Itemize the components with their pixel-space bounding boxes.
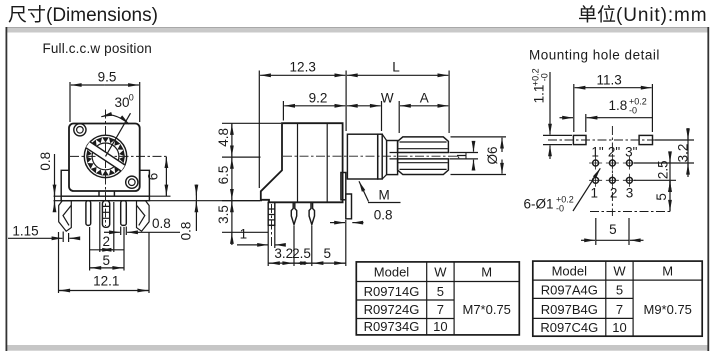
svg-text:3.2: 3.2 (274, 246, 293, 261)
svg-text:5: 5 (102, 253, 110, 268)
dim 0.8 right-vertical (195, 185, 197, 232)
svg-text:0.8: 0.8 (38, 152, 53, 171)
svg-text:2": 2" (608, 145, 621, 160)
dial teeth ring (86, 137, 125, 175)
dim 2.5 (634, 179, 676, 181)
front right pin (121, 201, 127, 226)
frame left line (6, 27, 8, 351)
frame bottom gray bar (6, 345, 710, 351)
shaft slot lines (390, 153, 398, 159)
front left hook leg (59, 201, 72, 231)
front left side tab (61, 170, 69, 196)
svg-text:A: A (420, 90, 429, 105)
svg-text:0.8: 0.8 (179, 222, 194, 241)
shaft knurl top half (398, 137, 449, 153)
mounting horizontal centerline (548, 139, 663, 141)
svg-text:R097B4G: R097B4G (541, 302, 598, 317)
dim 5 vertical (669, 181, 671, 189)
svg-text:1": 1" (591, 145, 604, 160)
dim A (398, 101, 400, 133)
svg-text:10: 10 (433, 319, 447, 334)
svg-text:2.5: 2.5 (292, 246, 311, 261)
svg-text:1: 1 (240, 227, 248, 242)
svg-text:0: 0 (129, 93, 134, 103)
shaft knurl bottom half (398, 159, 449, 175)
svg-text:Full.c.c.w position: Full.c.c.w position (43, 41, 152, 56)
svg-text:R09724G: R09724G (364, 302, 420, 317)
svg-text:3.2: 3.2 (675, 144, 690, 163)
dim 1 (shaft slot) (450, 152, 479, 154)
dim 1.1 +0.2/-0 (543, 134, 572, 136)
side bracket plate (341, 173, 346, 200)
svg-text:Ø6: Ø6 (485, 146, 500, 164)
side pin 2 (kite) (309, 202, 314, 224)
svg-text:9.2: 9.2 (309, 90, 328, 105)
svg-text:30: 30 (115, 95, 130, 110)
front center pin (102, 201, 109, 228)
front middle tab (99, 191, 114, 196)
thread ring (378, 134, 383, 179)
dial inner circle (92, 143, 119, 170)
svg-text:3.5: 3.5 (216, 205, 231, 224)
frame top gray bar (6, 27, 710, 33)
dim L (448, 71, 450, 134)
svg-text:0.8: 0.8 (152, 216, 171, 231)
svg-text:0.8: 0.8 (374, 208, 393, 223)
svg-text:(Dimensions): (Dimensions) (46, 5, 158, 26)
svg-text:2.5: 2.5 (656, 160, 671, 179)
svg-text:3": 3" (625, 145, 638, 160)
side pin 1 (kite) (291, 202, 296, 224)
dim chain 3.2 / 2.5 / 5 (293, 226, 295, 266)
side body wafer lines (297, 123, 299, 202)
svg-text:6: 6 (146, 173, 161, 181)
svg-text:11.3: 11.3 (597, 72, 622, 87)
svg-text:5: 5 (616, 282, 623, 297)
svg-text:12.3: 12.3 (290, 60, 316, 75)
svg-text:1.1: 1.1 (531, 85, 546, 104)
svg-text:2: 2 (610, 186, 618, 201)
front right side tab (141, 170, 150, 196)
svg-text:6-Ø1: 6-Ø1 (524, 197, 554, 212)
dim 12.3 (258, 71, 260, 189)
mounting vertical centerline (611, 126, 613, 216)
dim 9.2 (282, 101, 284, 121)
front body square (69, 124, 140, 192)
dim 11.3 (573, 84, 575, 132)
side left flat leg (268, 202, 275, 225)
screw hole bottom-right (126, 176, 138, 188)
dim 6 right (150, 195, 171, 197)
dim diameter 6 (451, 136, 507, 138)
svg-text:9.5: 9.5 (98, 70, 117, 85)
svg-text:4.8: 4.8 (216, 128, 231, 147)
front vertical centerline (105, 110, 107, 227)
title left: 尺寸(Dimensions) (9, 6, 27, 23)
svg-text:1: 1 (454, 152, 469, 160)
svg-text:1: 1 (591, 186, 599, 201)
dial slot band (86, 142, 126, 172)
frame right line (707, 27, 709, 351)
holes 6x circles with center marks (589, 157, 636, 187)
svg-text:7: 7 (616, 302, 623, 317)
dim 1.8 +0.2/-0 (585, 114, 587, 132)
right slot (639, 135, 652, 144)
svg-text:-0: -0 (540, 73, 550, 81)
svg-text:1.8: 1.8 (609, 98, 628, 113)
screw hole top-left (74, 124, 86, 136)
svg-text:Model: Model (552, 264, 588, 279)
dim 9.5 (69, 82, 71, 122)
svg-text:5: 5 (654, 193, 669, 201)
dim 0.8 (side right leg) (330, 222, 345, 224)
svg-text:-0: -0 (556, 204, 564, 214)
side body outline (261, 123, 343, 202)
svg-text:W: W (381, 90, 394, 105)
side bracket foot and right leg (346, 194, 352, 219)
dial outer circle (84, 135, 126, 177)
dim 5 horizontal bottom (595, 218, 597, 245)
front bottom flange lip (61, 196, 149, 201)
title right: 单位(Unit):mm (579, 5, 596, 22)
svg-text:2: 2 (102, 234, 110, 249)
svg-text:M: M (662, 264, 673, 279)
svg-text:L: L (392, 60, 400, 75)
side centerline (283, 155, 459, 157)
front right hook leg (137, 201, 150, 231)
svg-text:3: 3 (626, 186, 634, 201)
svg-text:Model: Model (374, 265, 410, 280)
svg-text:6.5: 6.5 (216, 166, 231, 185)
svg-text:12.1: 12.1 (93, 274, 119, 289)
svg-text:R09714G: R09714G (364, 284, 420, 299)
svg-text:W: W (613, 264, 626, 279)
dim 30 degrees (106, 113, 131, 156)
dim chain 4.8 / 6.5 / 3.5 (222, 122, 281, 124)
svg-text:5: 5 (609, 222, 617, 237)
svg-text:7: 7 (437, 302, 444, 317)
dim 3.2 (655, 139, 694, 141)
svg-text:R097C4G: R097C4G (540, 320, 598, 335)
svg-text:Mounting hole detail: Mounting hole detail (529, 48, 660, 63)
svg-text:M: M (379, 188, 390, 203)
left slot (573, 135, 586, 144)
svg-text:1.15: 1.15 (12, 224, 38, 239)
dim W (381, 101, 383, 131)
bushing threaded section (347, 134, 377, 179)
svg-text:W: W (434, 265, 447, 280)
svg-text:5: 5 (437, 284, 444, 299)
svg-text:R09734G: R09734G (364, 319, 420, 334)
svg-text:M9*0.75: M9*0.75 (643, 302, 691, 317)
svg-text:M: M (481, 265, 492, 280)
front left pin (86, 201, 91, 226)
mounting bottom dash-dot line (590, 211, 672, 213)
collar (387, 141, 398, 175)
svg-text:10: 10 (612, 320, 626, 335)
svg-text:R097A4G: R097A4G (541, 282, 598, 297)
svg-text:5: 5 (324, 246, 332, 261)
svg-text:-0: -0 (629, 106, 637, 116)
front horizontal centerline (70, 155, 167, 157)
svg-text:(Unit):mm: (Unit):mm (616, 5, 707, 26)
svg-text:M7*0.75: M7*0.75 (462, 302, 510, 317)
chamfer to collar (382, 134, 386, 179)
